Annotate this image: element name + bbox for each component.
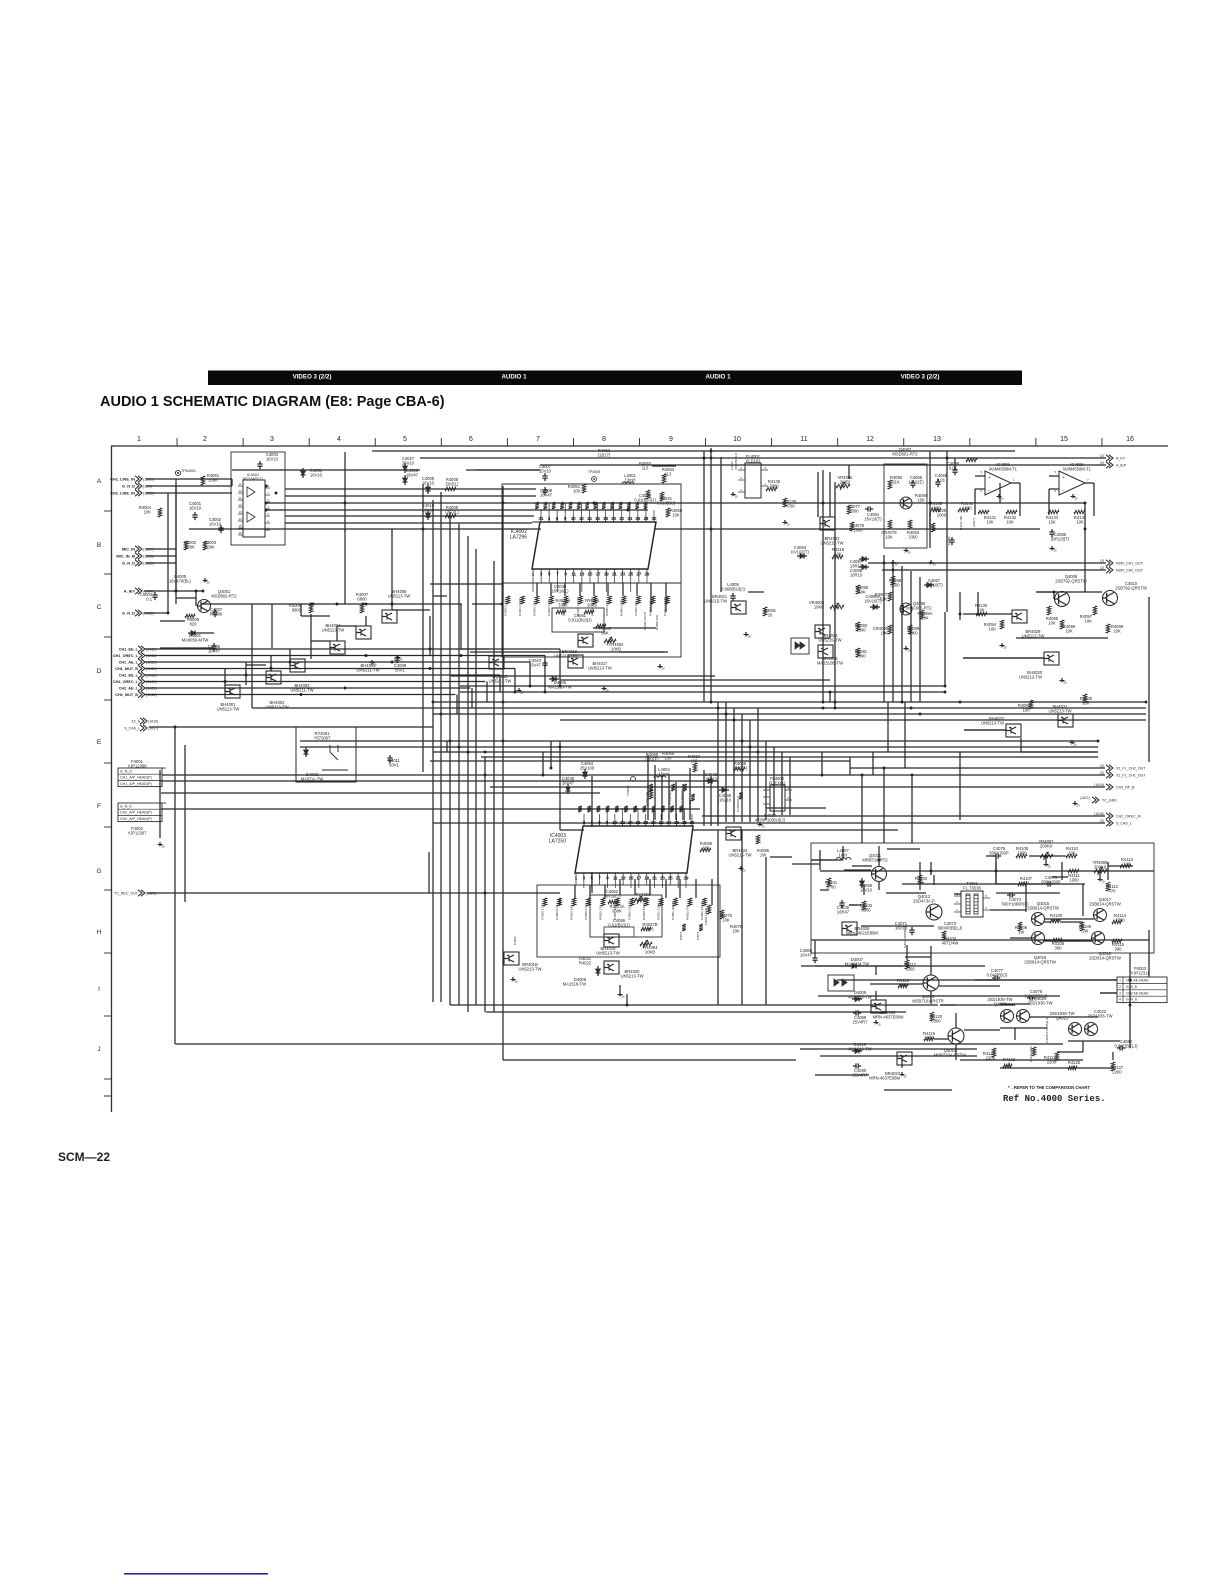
resistor R4002 100K [184,541,188,550]
capacitor R4057 10K [651,596,655,604]
svg-text:UM5211-TW: UM5211-TW [356,668,379,673]
resistor R4051 100 [582,484,586,493]
transistor Q4001 MSD602-RT2 [198,600,211,613]
wire [300,746,1098,748]
svg-text:1W: 1W [1018,930,1024,935]
ground YR4007 [1045,862,1047,865]
resistor R4096 5600 [891,576,895,585]
wire [954,893,961,895]
svg-text:G_N_D: G_N_D [122,611,135,616]
junction [391,661,394,664]
svg-text:16: 16 [595,516,600,521]
pot VR4005 2K(B) [836,484,850,488]
svg-text:Q4021: Q4021 [1056,1016,1069,1021]
resistor R4005 820 [185,614,195,618]
svg-text:20: 20 [622,995,626,999]
wire [930,862,932,875]
wire [451,675,715,677]
wire [675,782,677,820]
test point TP64001 [175,470,180,475]
wire [665,879,667,898]
wire [245,662,247,685]
wire [428,852,430,893]
svg-text:R4072: R4072 [679,931,683,940]
wire [470,651,664,653]
wire [964,1029,1000,1031]
pot VR4006 10KB [830,605,844,609]
svg-text:G_N_D: G_N_D [120,804,132,808]
capacitor C4048 16V10 [708,779,712,784]
wire [964,729,1006,731]
junction [484,774,487,777]
svg-text:20: 20 [162,845,166,849]
capacitor C4087 16R10 [862,557,866,562]
wire [959,752,961,820]
wire [203,603,462,605]
wire [1060,940,1082,942]
wire [433,595,447,597]
svg-text:16R10: 16R10 [850,573,863,578]
wire [593,583,595,596]
capacitor pin decoupling [552,502,556,509]
junction [603,528,606,531]
wire [930,946,932,975]
transistor Q4013 MSB710A-RSTR [923,975,939,991]
svg-text:UN5215-TW: UN5215-TW [704,599,727,604]
junction [1145,701,1148,704]
transistor Q4084 [900,497,912,509]
capacitor pin decoupling [635,502,639,509]
op-amp IC4006 MJM4558M-T1 (A) [985,471,1011,495]
wire [689,768,691,820]
wire [559,898,561,905]
resistor R4101 2700 [827,878,831,887]
wire [837,979,996,981]
wire [634,879,636,895]
test point TP4006 [631,777,636,782]
input pin G_N_D (1A25) [138,610,142,616]
wire [1044,918,1094,920]
capacitor pin decoupling [577,502,581,509]
junction [1129,1004,1132,1007]
svg-text:X2_F1_CH2_OUT: X2_F1_CH2_OUT [1116,766,1146,770]
resistor R4078 1000 [850,522,854,531]
input pin MIC_IN (1B17) [138,546,142,552]
wire [481,756,1098,758]
svg-text:0.1: 0.1 [146,597,152,602]
wire [251,604,253,708]
wire [819,850,821,870]
wire [266,502,1085,504]
wire [977,592,979,614]
digital transistor BR4024 UN5215-TW [726,827,741,840]
wire [995,862,997,884]
IC4002 top pins [540,516,542,522]
junction [432,701,435,704]
svg-text:16V1(E): 16V1(E) [908,480,924,485]
svg-text:1000: 1000 [856,654,866,659]
wire [1148,597,1150,762]
capacitor pin decoupling [569,502,573,509]
junction [1129,979,1132,982]
svg-text:28: 28 [682,820,687,825]
wire [650,583,652,612]
junction [270,667,273,670]
svg-text:16V10: 16V10 [209,522,222,527]
svg-text:MSB710A-RSTW: MSB710A-RSTW [934,1053,966,1058]
junction [202,590,205,593]
IC IC4003 LA7250 [584,827,693,872]
junction [245,674,248,677]
junction [757,751,760,754]
junction [977,613,980,616]
svg-text:16V10: 16V10 [266,457,279,462]
capacitor C4051 16V10 [301,471,306,475]
capacitor C4056 0.01(BU)(J) [604,927,634,937]
wire [1030,1016,1068,1018]
junction [822,502,825,505]
wire [861,925,934,927]
resistor R4109 1W [1080,922,1084,931]
ground FL4001 [732,492,734,495]
junction [717,707,720,710]
svg-text:20: 20 [611,516,616,521]
svg-text:C4078 0.047(B)(LJ): C4078 0.047(B)(LJ) [1045,1018,1049,1043]
svg-text:16V10(T): 16V10(T) [925,583,943,588]
wire [919,577,921,702]
svg-text:3: 3 [1119,991,1121,995]
wire [850,767,902,769]
wire [559,741,561,830]
wire [336,626,338,641]
wire [665,583,667,612]
svg-text:16V47: 16V47 [800,953,813,958]
capacitor C4088 0.01 [952,469,957,471]
capacitor C4010 16V10 / R4009 [426,513,431,517]
svg-text:10K: 10K [834,552,842,557]
wire [919,862,921,890]
svg-text:TP4006: TP4006 [626,785,630,796]
capacitor C4076 500Y150P [1047,881,1049,886]
svg-text:12: 12 [238,503,242,507]
junction [822,707,825,710]
wire [1045,856,1047,862]
svg-text:2: 2 [203,436,207,443]
wire [834,482,836,708]
input pin CH1_AE_L (1A22) [141,659,145,665]
resistor R4139 1000 [966,458,977,462]
svg-text:12: 12 [620,820,625,825]
capacitor C4036 (2K) [637,596,641,604]
wire [842,846,844,860]
resistor R4058 10K [666,508,670,517]
record bias section box [811,843,1154,953]
wire [146,478,232,480]
svg-text:MSB710A-RSTR: MSB710A-RSTR [912,999,943,1004]
wire [1099,871,1101,877]
wire [814,940,816,955]
svg-text:A_IEP: A_IEP [1116,463,1127,467]
svg-text:2K(B): 2K(B) [840,480,851,485]
capacitor C4027 25V10 [403,466,408,470]
junction [710,528,713,531]
op-amp IC4001 M5218AFP-T1 [243,480,265,537]
capacitor C4040 470P [550,596,554,604]
svg-text:15: 15 [1060,436,1068,443]
wire [668,775,670,820]
svg-text:330K: 330K [558,603,568,608]
resistor R4100b 10K [1083,694,1087,703]
resistor R4140 100 [931,523,935,532]
wire [1044,921,1050,923]
capacitor pin decoupling IC4003 [679,806,683,812]
svg-text:MIC_IN_M: MIC_IN_M [116,554,135,559]
wire Q4019/Q4020 bracket [1000,1003,1030,1005]
digital transistor BR4022 UN5215-TW [820,517,835,530]
svg-text:20: 20 [743,869,747,873]
resistor R4106 1W [1018,922,1022,931]
wire [868,562,1106,564]
capacitor R4026 56K [572,898,576,906]
svg-text:R4071: R4071 [696,931,700,940]
svg-text:CH1_MUT_B: CH1_MUT_B [115,667,138,671]
wire [433,701,1146,703]
ground BR4024 [740,866,742,869]
svg-text:F: F [97,803,101,810]
resistor R4124 2200 [1032,1047,1036,1056]
svg-text:S_CAS_L: S_CAS_L [1116,821,1132,825]
svg-text:10K: 10K [1023,708,1031,713]
svg-text:20: 20 [933,563,937,567]
svg-text:TP64001: TP64001 [181,469,196,473]
svg-text:15K: 15K [917,498,925,503]
junction [336,603,339,606]
wire [765,857,767,1005]
svg-text:10K: 10K [921,616,929,621]
capacitor C4008 16V47 [542,489,547,491]
junction [391,603,394,606]
wire [766,807,826,809]
svg-text:10K: 10K [1048,520,1056,525]
ground BH4030 [1061,678,1063,681]
wire [1025,884,1027,912]
wire [502,486,504,1060]
resistor R4023A 330K [608,900,618,904]
svg-text:2SB792-QRSTW: 2SB792-QRSTW [1055,579,1087,584]
resistor R4003 100K [203,541,207,550]
svg-text:0.01: 0.01 [949,466,958,471]
junction [749,746,752,749]
capacitor C4077 0.047(B)(J) [994,975,996,980]
svg-text:C4989: C4989 [513,936,517,945]
wire Q4008 top [1036,591,1102,593]
wire bus [145,687,470,689]
junction [822,701,825,704]
wire [955,1044,957,1060]
shield box around IC4002 section [502,484,681,583]
svg-text:G_N_D: G_N_D [122,484,135,489]
wire [703,451,705,702]
wire bus [145,648,560,650]
wire [344,529,346,604]
wires IC4002 pin fanout up [540,510,542,516]
wire [301,615,330,617]
capacitor C4089c 25V4R7 [855,1010,857,1015]
digital transistor BH4030 UN5212-TW [1044,652,1059,665]
diode D4007 MA151M-TW [852,964,856,969]
wire [733,708,735,822]
wire [811,939,1149,941]
svg-text:CH2_AE_L: CH2_AE_L [119,687,139,691]
output pin NOR_CH2_OUT (2) [1106,567,1110,573]
svg-text:CH1_A/P_HEAD(P): CH1_A/P_HEAD(P) [120,782,152,786]
svg-text:1: 1 [1119,979,1121,983]
wire [529,662,531,686]
svg-text:10K: 10K [986,520,994,525]
svg-text:SCM—22: SCM—22 [58,1150,110,1164]
svg-text:100: 100 [665,756,673,761]
wire [450,1004,938,1006]
capacitor C4002 16V10 [218,527,223,529]
svg-text:MRB710-RT2: MRB710-RT2 [862,858,888,863]
IC4002 bottom pins [532,569,534,575]
capacitor pin decoupling IC4003 [633,806,637,812]
junction [344,687,347,690]
svg-text:25V10: 25V10 [539,469,552,474]
wire bus [145,694,455,696]
wire bus [145,681,485,683]
svg-text:0.047(B)(LJ): 0.047(B)(LJ) [1114,1044,1138,1049]
svg-text:R4055 56K: R4055 56K [605,601,609,616]
svg-text:R4060 10K: R4060 10K [533,601,537,616]
wire [484,757,486,1012]
junction [458,746,461,749]
wire [757,708,759,822]
digital transistor BQ4015 UN5113-TW [489,656,504,669]
svg-text:0.011(BU)(J): 0.011(BU)(J) [568,618,592,623]
svg-text:1000: 1000 [937,513,947,518]
svg-text:4671/4W: 4671/4W [942,941,959,946]
svg-text:10K: 10K [722,918,730,923]
wire [449,512,451,1005]
capacitor pin decoupling [560,502,564,509]
svg-text:2SD814-QRSTW: 2SD814-QRSTW [1089,956,1121,961]
wire [887,702,889,752]
digital transistor BH4017 UM5213-TW [568,655,583,668]
wire [159,770,161,838]
wire [420,457,1106,459]
svg-text:16V10(T): 16V10(T) [603,894,621,899]
svg-text:470: 470 [1109,889,1117,894]
svg-text:26: 26 [674,820,679,825]
svg-text:16: 16 [636,820,641,825]
resistor R4069 10K [700,848,711,852]
svg-text:UN5113-TW: UN5113-TW [322,628,345,633]
svg-text:LA7296: LA7296 [510,534,527,540]
wire [902,767,1105,769]
junction [514,691,517,694]
diode D4006 MA1516-TW [596,969,601,973]
svg-text:16V10: 16V10 [422,508,435,513]
capacitor C4007 RP100 [212,611,217,613]
wire [460,691,945,693]
svg-text:6800: 6800 [357,597,367,602]
wire [560,829,898,831]
junction [946,457,949,460]
junction [1084,528,1087,531]
relay RY4001 Y572067 [296,727,356,782]
resistor R4107 471 [1018,882,1027,886]
wire [149,726,433,728]
resistor R4114 4700 [1112,920,1122,924]
svg-text:MJM4558M-T1: MJM4558M-T1 [1063,467,1092,472]
resistor R4070 10K [720,910,724,919]
wire [550,741,552,768]
transistor Q4010b 2SD814-QRSTW [1092,932,1105,945]
capacitor C4028 16V47 [403,478,408,482]
svg-text:G_N_D: G_N_D [122,561,135,566]
svg-text:20K9: 20K9 [587,603,597,608]
wire [161,780,718,782]
capacitor C4085A 16V10(T) [873,605,877,610]
svg-text:100K: 100K [205,545,215,550]
wire Q4013-Q4014 chain [930,991,932,1004]
capacitor pin decoupling IC4003 [578,806,582,812]
digital transistor BH4005 UM5211-TW [330,641,345,654]
junction [224,680,227,683]
svg-text:20: 20 [515,980,519,984]
svg-text:18: 18 [603,516,608,521]
input pin CH1_EE_L (1A10) [141,646,145,652]
capacitor C4003 16V10 [257,463,262,465]
svg-text:4700P10(BU)(J): 4700P10(BU)(J) [755,818,786,823]
resistor R4094 10K [1000,620,1004,629]
resistor R4054 113 [662,474,666,483]
wire [146,555,176,557]
IC IC4002 LA7296 [532,521,656,523]
svg-text:X2_A: X2_A [131,719,140,723]
wire [486,682,488,703]
wire [231,479,233,486]
svg-text:R4031 330K: R4031 330K [657,903,661,920]
digital transistor BR4025 MRN14021E86M [842,922,857,935]
svg-text:20: 20 [904,1075,908,1079]
capacitor C4068b 16V10 [860,881,865,885]
junction [559,746,562,749]
capacitor C4001 16V10 [192,514,197,516]
svg-text:CH2_EE_L: CH2_EE_L [119,674,139,678]
svg-text:10K: 10K [1113,629,1121,634]
resistor R4110 10K [1066,854,1077,858]
wire [995,856,997,884]
wire Q4001 base jog [195,591,197,606]
wire [285,515,390,517]
wire [870,983,923,985]
resistor R4072 label [682,924,686,931]
wire [285,488,390,490]
digital transistor BH4031 UN5213-TW [1058,714,1073,727]
wire [266,509,648,511]
wires IC4003 fanout down [575,879,577,885]
wire [146,562,176,564]
wire [882,569,1106,571]
junction [911,774,914,777]
digital transistor BR4026 MRN-4637E86M [871,1000,886,1013]
wire [717,781,719,826]
svg-text:14: 14 [628,820,633,825]
svg-text:2200: 2200 [1112,1070,1122,1075]
digital transistor BH4001 UN5113-TW [225,685,240,698]
